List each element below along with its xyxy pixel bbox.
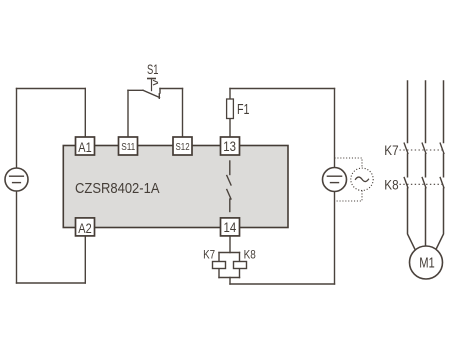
svg-text:K8: K8 — [244, 248, 256, 262]
K8 linkage (dashed) — [400, 183, 444, 185]
S1 actuator head — [148, 78, 155, 80]
coil K7 — [213, 262, 226, 269]
relay module CZSR8402-1A body — [63, 146, 288, 228]
terminal 13 — [221, 137, 240, 155]
svg-text:K7: K7 — [203, 248, 215, 262]
wire S12 stub — [182, 89, 184, 138]
wire coil right branch — [239, 253, 241, 278]
svg-text:K8: K8 — [384, 177, 398, 193]
wire S1 right — [160, 88, 183, 90]
terminal A1 — [76, 137, 95, 155]
S1 blade — [143, 90, 160, 97]
terminal S11 — [119, 137, 138, 155]
svg-text:S12: S12 — [176, 142, 190, 153]
svg-text:A1: A1 — [78, 139, 92, 155]
terminal A2 — [76, 218, 95, 236]
S1 actuator glyph — [154, 81, 158, 85]
wire S1 left — [128, 89, 143, 91]
K7 linkage (dashed) — [400, 149, 444, 151]
wire A1 drop — [84, 89, 86, 138]
svg-text:M1: M1 — [419, 256, 435, 272]
dotted link bottom — [335, 191, 363, 202]
svg-text:CZSR8402-1A: CZSR8402-1A — [75, 180, 160, 197]
svg-text:14: 14 — [224, 219, 237, 235]
wire bottom-left horizontal — [17, 282, 86, 284]
DC source left — [5, 168, 28, 191]
three-phase lines — [408, 81, 444, 251]
AC source circle (dotted) — [351, 168, 373, 190]
wire top-left horizontal — [17, 88, 86, 90]
wire fuse bottom — [229, 119, 231, 138]
svg-text:S1: S1 — [147, 62, 159, 77]
svg-text:S11: S11 — [121, 142, 135, 153]
contactor K7 main contacts — [404, 143, 444, 153]
terminal S12 — [173, 137, 192, 155]
wire coil left branch — [218, 253, 220, 278]
wire A2 drop — [84, 236, 86, 283]
S1 blade tick — [158, 94, 160, 99]
wire right vertical lower — [334, 192, 336, 285]
wire coil bottom bar — [219, 277, 240, 279]
coil K8 — [234, 262, 247, 269]
phase L2 wire — [425, 81, 427, 246]
wire coil top bar — [219, 252, 240, 254]
wire fuse top — [229, 89, 231, 100]
contactor K8 main contacts — [404, 178, 444, 188]
S1 actuator stem — [151, 79, 153, 91]
svg-text:K7: K7 — [384, 142, 398, 158]
S1 right post — [159, 89, 161, 94]
AC sine wave — [356, 177, 369, 182]
wire top-right horizontal — [230, 88, 335, 90]
wire coil exit — [229, 278, 231, 285]
wire right vertical upper — [334, 89, 336, 168]
dotted link top — [335, 158, 363, 168]
terminal 14 — [221, 218, 240, 236]
fuse F1 — [227, 99, 234, 119]
switch S1 — [128, 79, 183, 99]
svg-text:A2: A2 — [78, 220, 92, 236]
wire S11 stub — [127, 90, 129, 137]
phase L1 wire — [408, 81, 416, 251]
wire left vertical lower — [16, 191, 18, 283]
svg-text:13: 13 — [223, 138, 236, 154]
wire 14 to coil junction — [229, 236, 231, 253]
DC source right — [323, 168, 347, 192]
internal contact 13-14 — [227, 161, 231, 212]
AC source alternative (dotted) — [335, 158, 374, 201]
motor M1 — [410, 246, 443, 279]
svg-text:F1: F1 — [237, 102, 250, 118]
wire bottom-right horizontal — [230, 283, 335, 285]
phase L3 wire — [435, 81, 443, 251]
wire left vertical upper — [16, 89, 18, 169]
